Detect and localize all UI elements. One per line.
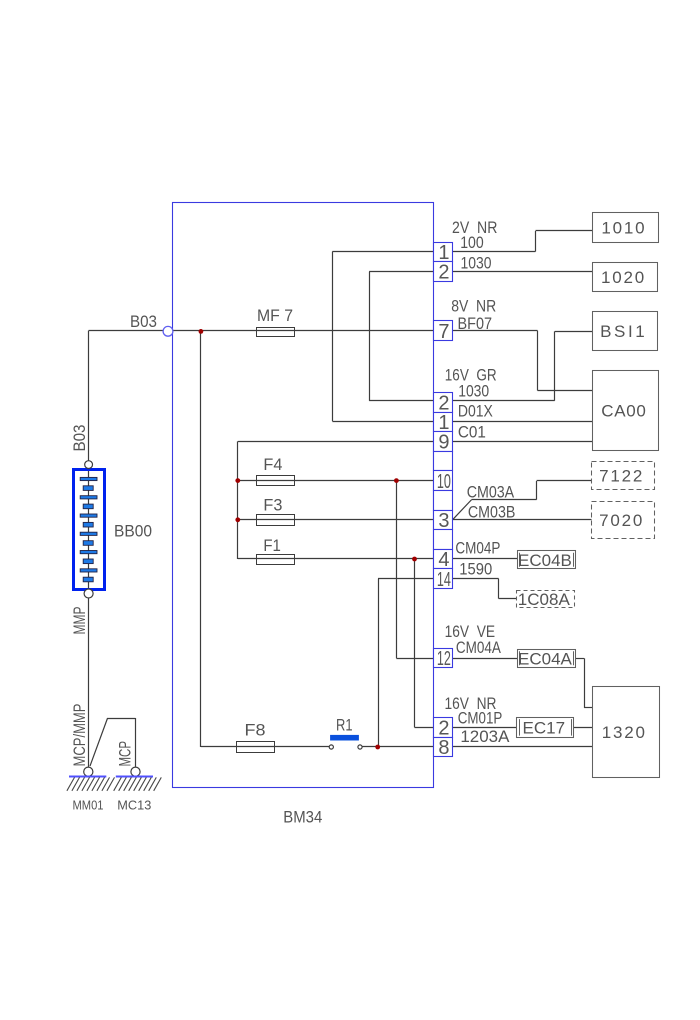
svg-text:F4: F4 xyxy=(263,455,282,474)
svg-text:MM01: MM01 xyxy=(73,798,104,813)
svg-text:MC13: MC13 xyxy=(117,798,151,813)
svg-text:MCP/MMP: MCP/MMP xyxy=(70,704,89,767)
svg-text:CM03B: CM03B xyxy=(468,502,516,521)
svg-text:F3: F3 xyxy=(263,496,282,515)
svg-text:F8: F8 xyxy=(245,721,266,740)
svg-text:1590: 1590 xyxy=(459,560,492,579)
svg-text:F1: F1 xyxy=(263,536,281,555)
svg-text:8: 8 xyxy=(438,737,449,759)
svg-text:C01: C01 xyxy=(458,423,486,442)
svg-text:CM04P: CM04P xyxy=(455,538,500,557)
svg-text:B03: B03 xyxy=(70,425,89,452)
svg-text:1203A: 1203A xyxy=(460,727,510,746)
svg-text:EC04B: EC04B xyxy=(518,551,572,570)
svg-text:7: 7 xyxy=(438,321,449,343)
svg-text:MMP: MMP xyxy=(70,607,89,635)
svg-text:BB00: BB00 xyxy=(114,521,152,540)
svg-text:14: 14 xyxy=(437,569,451,591)
svg-text:B03: B03 xyxy=(130,312,157,331)
svg-text:7020: 7020 xyxy=(599,511,644,530)
svg-text:R1: R1 xyxy=(336,715,353,734)
svg-text:100: 100 xyxy=(460,233,484,252)
svg-text:CA00: CA00 xyxy=(601,401,646,420)
svg-text:9: 9 xyxy=(438,432,449,454)
svg-text:EC04A: EC04A xyxy=(518,649,573,668)
svg-text:CM04A: CM04A xyxy=(456,638,502,657)
svg-text:CM01P: CM01P xyxy=(458,708,503,727)
svg-text:MCP: MCP xyxy=(116,741,135,767)
svg-text:D01X: D01X xyxy=(458,401,493,420)
svg-text:MF 7: MF 7 xyxy=(257,306,293,325)
svg-text:1320: 1320 xyxy=(602,723,647,742)
svg-text:1030: 1030 xyxy=(461,254,492,273)
svg-text:3: 3 xyxy=(438,510,449,532)
svg-text:1010: 1010 xyxy=(601,218,646,237)
svg-text:BSI1: BSI1 xyxy=(600,322,647,341)
svg-text:8V NR: 8V NR xyxy=(451,297,496,316)
svg-text:CM03A: CM03A xyxy=(467,483,515,502)
svg-text:BF07: BF07 xyxy=(458,314,493,333)
svg-text:1C08A: 1C08A xyxy=(518,590,571,609)
svg-text:BM34: BM34 xyxy=(283,808,322,827)
svg-text:1020: 1020 xyxy=(601,268,646,287)
svg-text:10: 10 xyxy=(437,471,451,493)
svg-text:7122: 7122 xyxy=(599,467,644,486)
svg-text:2: 2 xyxy=(438,262,449,284)
svg-text:12: 12 xyxy=(437,648,451,670)
svg-text:1030: 1030 xyxy=(458,382,489,401)
svg-text:EC17: EC17 xyxy=(523,718,566,737)
